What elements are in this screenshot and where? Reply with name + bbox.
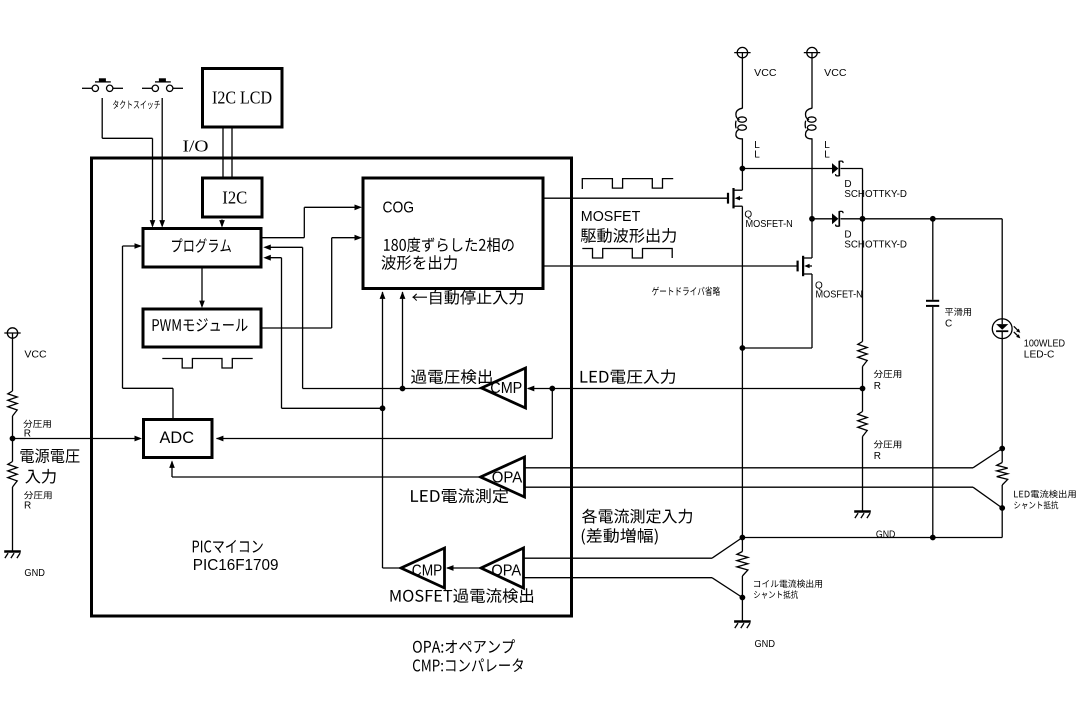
power VCC2 symbol [734, 47, 750, 57]
wire output node to R3 [862, 219, 864, 342]
wire COG output 2 to Q2 gate [545, 265, 798, 267]
wire output node to C1 [932, 219, 934, 300]
wire R3 to R4 [860, 367, 866, 412]
wire top node to D1 [742, 168, 832, 170]
resistor R4 分圧用 [858, 412, 901, 463]
inductor L1 [736, 108, 747, 139]
svg-text:PIC16F1709: PIC16F1709 [193, 557, 279, 574]
svg-text:MOSFET-N: MOSFET-N [816, 290, 863, 301]
wire ADC to program block [123, 243, 174, 418]
svg-text:VCC: VCC [754, 68, 776, 79]
label LED電流検出用 シャント抵抗 [1014, 490, 1075, 509]
power VCC3 symbol [804, 47, 820, 57]
node coil shunt top [740, 535, 746, 541]
transistor Q2 MOSFET-N [798, 219, 812, 348]
wire program to COG input 1 [263, 205, 363, 238]
wire OPA2 input + from coil shunt [523, 538, 742, 559]
label L2 [824, 140, 830, 161]
wire VCC1 to R1 [12, 338, 14, 391]
label GND bottom [755, 639, 776, 650]
node Q1 drain junction [740, 166, 746, 172]
svg-text:CMP: CMP [490, 380, 522, 397]
wire OPA1 input - from LED shunt [526, 487, 1003, 508]
wire I2C block to program block [219, 220, 225, 228]
wire I2C bus SCL (LCD to I2C block) [231, 129, 233, 178]
capacitor C1 平滑用 [926, 301, 939, 306]
svg-text:100WLED: 100WLED [1024, 339, 1065, 350]
wire Q2 drain node to D2 [812, 218, 832, 220]
svg-text:VCC: VCC [824, 68, 846, 79]
tact switch SW2 [142, 78, 183, 91]
label GND rail [876, 529, 896, 540]
label ←自動停止入力 [412, 290, 523, 305]
svg-text:I/O: I/O [183, 137, 209, 156]
wire SW1 to program block [102, 98, 155, 228]
wire R4 to ground [862, 437, 864, 512]
wire CMP2 output to COG auto-stop and program [263, 255, 401, 568]
label VCC left [24, 349, 46, 360]
svg-text:L: L [824, 150, 830, 161]
node divider tap to ADC [10, 436, 142, 442]
label タクトスイッチ [113, 100, 160, 109]
LED D3 100WLED [992, 319, 1021, 340]
resistor R5 LED current shunt [997, 463, 1008, 486]
svg-text:I2C LCD: I2C LCD [212, 88, 272, 108]
label (差動増幅) [582, 528, 658, 545]
wire CMP1 output to COG auto-stop and program [263, 245, 481, 392]
waveform MOSFET drive phase 2 [582, 249, 672, 259]
resistor R3 分圧用 [858, 342, 901, 393]
inductor L2 [805, 108, 816, 139]
svg-text:R: R [874, 381, 881, 392]
svg-text:OPA: OPA [491, 562, 521, 579]
comparator CMP1 (overvoltage detect) [482, 368, 526, 408]
op-amp OPA1 (LED current measure) [481, 457, 525, 497]
wire output node rail [841, 216, 1003, 222]
label Q2 [815, 281, 863, 301]
COG block [363, 178, 543, 289]
wire PWM to COG input 2 [263, 235, 363, 328]
svg-text:OPA: OPA [492, 469, 523, 486]
wire OPA1 output to ADC [169, 460, 480, 477]
svg-text:SCHOTTKY-D: SCHOTTKY-D [844, 239, 907, 250]
wire OPA2 output to CMP2 input [446, 565, 481, 571]
wire I2C bus SDA (LCD to I2C block) [222, 129, 224, 178]
label PICマイコン [193, 540, 263, 553]
resistor R1 分圧用 [8, 391, 51, 440]
op-amp OPA2 (differential amp) [481, 548, 524, 588]
svg-text:R: R [874, 451, 881, 462]
wire R2 to ground [12, 487, 14, 551]
wire LED voltage input net [216, 386, 863, 442]
label 入力 [25, 469, 55, 484]
wire shunt to GND rail [999, 485, 1005, 538]
ground GND1 [4, 552, 21, 559]
svg-text:MOSFET: MOSFET [581, 208, 641, 225]
svg-text:GND: GND [24, 568, 45, 579]
ground GND2 [854, 512, 871, 519]
ADC block [144, 420, 213, 458]
wire OPA1 input + from LED shunt [526, 449, 1003, 468]
wire program to PWM module [199, 269, 205, 309]
waveform PWM output [162, 359, 252, 369]
label D1 [844, 179, 907, 200]
svg-text:I2C: I2C [222, 187, 247, 207]
label MOSFET 駆動波形出力 [581, 208, 676, 243]
I2C LCD module box [203, 69, 283, 128]
svg-text:LED-C: LED-C [1024, 349, 1055, 360]
tact switch SW1 [82, 78, 123, 91]
svg-text:ADC: ADC [160, 429, 195, 447]
svg-text:C: C [945, 319, 952, 330]
wire R1 to node [12, 416, 14, 462]
power VCC1 symbol [4, 328, 20, 338]
label 平滑用 C [945, 308, 971, 330]
label VCC3 [824, 68, 846, 79]
svg-text:GND: GND [755, 639, 776, 650]
wire VCC3 to L2 [811, 58, 813, 109]
PWM module block [143, 309, 261, 347]
comparator CMP2 (MOSFET overcurrent) [401, 548, 445, 588]
label コイル電流検出用 シャント抵抗 [754, 579, 822, 598]
label Q1 [744, 210, 792, 231]
PIC microcontroller block U1 PIC16F1709 [92, 158, 572, 616]
label CMP:コンパレータ [413, 658, 523, 672]
svg-text:SCHOTTKY-D: SCHOTTKY-D [844, 189, 907, 200]
label GND left [24, 568, 45, 579]
label 各電流測定入力 [582, 509, 692, 524]
waveform MOSFET drive phase 1 [582, 179, 673, 189]
svg-text:COG: COG [383, 200, 415, 217]
label D2 [844, 229, 907, 250]
node Q2 drain junction [809, 216, 815, 222]
diode D2 SCHOTTKY-D [832, 211, 843, 226]
label LED電圧入力 [581, 369, 675, 384]
label 100WLED LED-C [1024, 339, 1065, 361]
wire R6 to ground [740, 576, 746, 621]
wire node to R6 [741, 538, 743, 552]
label LED電流測定 [411, 488, 508, 503]
wire COG output 1 to Q1 gate [545, 197, 729, 199]
svg-text:R: R [24, 500, 31, 511]
ground GND3 [734, 622, 751, 629]
svg-text:VCC: VCC [24, 349, 46, 360]
wire C1 to GND rail [932, 307, 934, 538]
wire GND rail [742, 535, 1002, 541]
wire D1 cathode to output node [841, 169, 863, 219]
svg-text:MOSFET-N: MOSFET-N [746, 219, 793, 230]
diode D1 SCHOTTKY-D [832, 161, 843, 176]
wire output node to LED [1001, 219, 1003, 319]
transistor Q1 MOSFET-N [728, 169, 742, 538]
label 過電圧検出 [411, 369, 492, 384]
label ゲートドライバ省略 [652, 287, 720, 296]
wire L2 to Q2 drain node [811, 138, 813, 219]
wire SW2 to program block [159, 98, 165, 228]
label OPA:オペアンプ [413, 639, 515, 653]
wire Q2 source to Q1 source [740, 345, 813, 351]
label MOSFET過電流検出 [390, 588, 533, 603]
label 電源電圧 [20, 448, 79, 463]
wire VCC2 to L1 [741, 58, 743, 109]
label I/O [183, 137, 209, 156]
resistor R2 分圧用 [8, 462, 52, 512]
label PIC16F1709 [193, 557, 279, 574]
label VCC2 [754, 68, 776, 79]
svg-text:GND: GND [876, 529, 896, 540]
resistor R6 coil current shunt [737, 552, 748, 577]
label L1 [754, 140, 760, 161]
I2C block [203, 178, 263, 217]
program block [143, 229, 261, 268]
svg-text:L: L [754, 150, 760, 161]
wire OPA2 input - from coil shunt [523, 578, 742, 598]
wire LED cathode to shunt [999, 339, 1005, 463]
svg-text:CMP: CMP [412, 562, 443, 579]
wire L1 to Q1 drain node [741, 138, 743, 168]
